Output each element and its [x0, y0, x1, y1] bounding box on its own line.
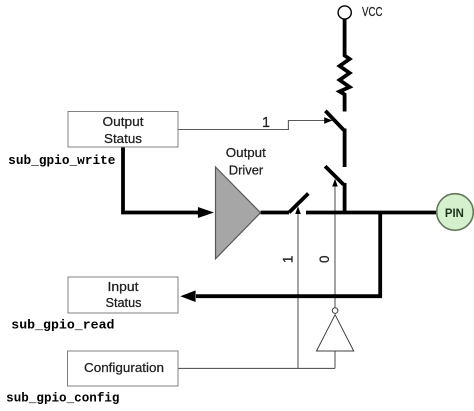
svg-text:Driver: Driver: [229, 162, 264, 177]
svg-text:1: 1: [262, 115, 270, 131]
svg-text:Output: Output: [226, 145, 266, 160]
svg-text:sub_gpio_write: sub_gpio_write: [8, 154, 115, 168]
svg-text:VCC: VCC: [362, 5, 383, 19]
svg-text:sub_gpio_config: sub_gpio_config: [6, 392, 119, 406]
svg-text:PIN: PIN: [445, 206, 464, 220]
svg-text:0: 0: [317, 255, 332, 263]
svg-text:Status: Status: [104, 132, 142, 146]
svg-text:Output: Output: [103, 115, 145, 129]
svg-text:sub_gpio_read: sub_gpio_read: [11, 319, 114, 333]
svg-text:1: 1: [280, 255, 296, 263]
svg-text:Input: Input: [108, 280, 140, 294]
svg-text:Configuration: Configuration: [84, 361, 164, 375]
svg-text:Status: Status: [106, 296, 142, 310]
